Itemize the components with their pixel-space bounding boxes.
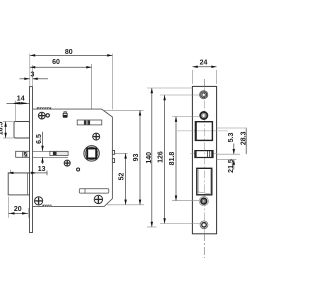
svg-text:126: 126 bbox=[158, 151, 165, 163]
svg-text:60: 60 bbox=[52, 59, 60, 66]
svg-text:3: 3 bbox=[30, 72, 34, 79]
svg-text:13: 13 bbox=[38, 166, 46, 173]
svg-text:21.5: 21.5 bbox=[228, 159, 235, 173]
svg-text:81.8: 81.8 bbox=[169, 152, 176, 166]
svg-text:93: 93 bbox=[133, 154, 140, 162]
svg-text:140: 140 bbox=[146, 152, 153, 164]
svg-text:24: 24 bbox=[200, 60, 208, 67]
svg-text:16.5: 16.5 bbox=[0, 122, 5, 136]
svg-text:80: 80 bbox=[65, 49, 73, 56]
svg-text:5.3: 5.3 bbox=[228, 133, 235, 143]
svg-text:20: 20 bbox=[14, 206, 22, 213]
svg-text:6.5: 6.5 bbox=[36, 134, 43, 144]
svg-text:28.3: 28.3 bbox=[240, 131, 247, 145]
svg-text:14: 14 bbox=[17, 95, 25, 102]
svg-text:52: 52 bbox=[119, 173, 126, 181]
